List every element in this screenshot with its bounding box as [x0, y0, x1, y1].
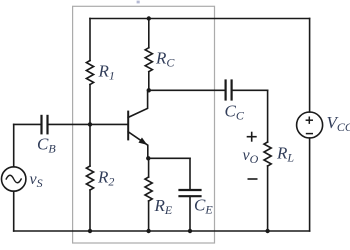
resistor RC — [145, 48, 152, 72]
wire: emitter node to CE branch — [148, 157, 190, 159]
wire: RE bottom to ground rail — [148, 201, 150, 231]
wire: RL bottom to ground rail — [267, 166, 269, 231]
stray mark above box — [137, 1, 140, 4]
node: RE ground junction — [146, 229, 150, 233]
wire: RL column upper — [267, 90, 269, 142]
capacitor CC — [226, 81, 232, 100]
wire: bottom ground rail — [14, 230, 310, 232]
resistor RL — [264, 142, 271, 166]
wire: RC bottom to collector node — [148, 72, 150, 91]
node: collector junction — [147, 88, 151, 92]
transistor Q1 collector lead — [128, 90, 147, 117]
node: emitter junction — [146, 156, 150, 160]
wire: top rail from R1 top to VCC column — [90, 18, 310, 20]
capacitor CB — [42, 116, 48, 133]
wire: vS to CB left plate — [14, 123, 42, 125]
wire: CE branch vertical upper — [189, 158, 191, 190]
wire: RE top segment — [148, 158, 150, 177]
transistor Q1 emitter lead — [128, 132, 148, 159]
transistor Q1 emitter arrow — [138, 138, 147, 145]
wire: R2 bottom to ground rail — [89, 190, 91, 231]
wire: RC branch top segment — [148, 19, 150, 48]
node: base / R1-R2 junction — [88, 122, 92, 126]
wire: CB right plate to base node — [48, 123, 129, 125]
wire: CC right plate to RL column — [232, 89, 268, 91]
wire: left column below vS — [13, 191, 15, 231]
VCC source minus sign — [306, 133, 313, 135]
wire: CE bottom plate to ground rail — [189, 196, 191, 231]
wire: R1 bottom to base node — [89, 85, 91, 125]
amplifier boundary box — [73, 6, 215, 243]
source vS sine symbol — [6, 175, 21, 183]
transistor Q1 base bar — [127, 112, 129, 140]
source VCC circle — [297, 112, 323, 138]
resistor RE — [145, 177, 152, 201]
wire: collector node to CC left plate — [148, 89, 226, 91]
wire: VCC column upper (top rail down to VCC source top) — [309, 19, 311, 113]
node: R2 ground junction — [88, 229, 92, 233]
wire: left column above vS up to CB level — [13, 124, 15, 166]
node: RC top junction — [147, 16, 151, 20]
VCC source plus sign — [306, 117, 313, 134]
wire: base node to R2 top — [89, 124, 91, 166]
output plus sign — [247, 132, 258, 179]
wire: VCC column lower (VCC source bottom to ground rail) — [309, 138, 311, 231]
source vS circle — [2, 167, 26, 191]
wire: R1 branch top segment — [89, 19, 91, 61]
resistor R2 — [86, 166, 93, 190]
node: RL ground junction — [265, 229, 269, 233]
resistor R1 — [86, 61, 93, 85]
node: CE ground junction — [188, 229, 192, 233]
output minus sign — [248, 178, 258, 180]
capacitor CE — [180, 190, 201, 196]
